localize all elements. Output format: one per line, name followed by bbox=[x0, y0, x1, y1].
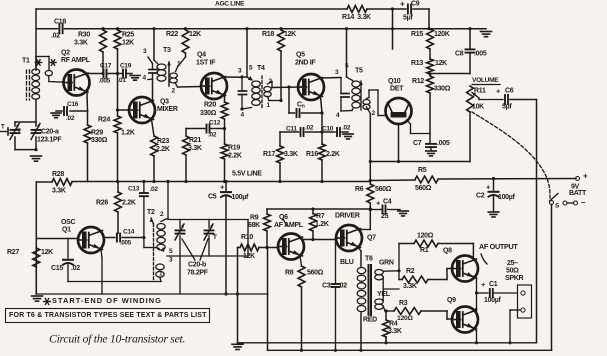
svg-text:BLU: BLU bbox=[340, 259, 354, 266]
svg-text:C18: C18 bbox=[54, 18, 66, 25]
svg-text:5µf: 5µf bbox=[502, 103, 512, 110]
svg-text:100µf: 100µf bbox=[484, 297, 502, 304]
svg-text:2.2K: 2.2K bbox=[122, 199, 136, 206]
svg-text:R8: R8 bbox=[285, 269, 294, 276]
svg-text:T4: T4 bbox=[257, 65, 265, 72]
svg-text:C15: C15 bbox=[51, 265, 63, 272]
svg-text:560Ω: 560Ω bbox=[307, 269, 324, 276]
svg-text:R30: R30 bbox=[78, 31, 90, 38]
svg-text:R22: R22 bbox=[166, 31, 178, 38]
svg-text:T: T bbox=[213, 234, 217, 241]
svg-text:R28: R28 bbox=[52, 171, 64, 178]
svg-text:R5: R5 bbox=[418, 167, 427, 174]
svg-text:3.3K: 3.3K bbox=[188, 145, 202, 152]
svg-text:Cn: Cn bbox=[297, 101, 305, 109]
svg-text:.005: .005 bbox=[474, 50, 487, 57]
svg-text:C2: C2 bbox=[476, 192, 485, 199]
svg-text:.02: .02 bbox=[305, 124, 314, 131]
svg-text:.02: .02 bbox=[150, 186, 159, 193]
svg-text:T3: T3 bbox=[163, 47, 171, 54]
svg-text:3.3K: 3.3K bbox=[52, 187, 66, 194]
svg-text:C12: C12 bbox=[209, 119, 221, 126]
svg-text:R3: R3 bbox=[399, 300, 408, 307]
svg-text:+: + bbox=[583, 172, 588, 181]
svg-text:120Ω: 120Ω bbox=[417, 232, 434, 239]
svg-text:START-END OF WINDING: START-END OF WINDING bbox=[52, 296, 162, 305]
svg-text:AF AMPL: AF AMPL bbox=[274, 222, 304, 229]
svg-text:2.2K: 2.2K bbox=[156, 146, 170, 153]
svg-text:C16: C16 bbox=[67, 101, 79, 108]
svg-text:AF OUTPUT: AF OUTPUT bbox=[479, 242, 518, 251]
svg-text:Circuit of the 10-transistor s: Circuit of the 10-transistor set. bbox=[49, 332, 185, 346]
svg-text:12K: 12K bbox=[41, 249, 53, 256]
svg-text:3.3K: 3.3K bbox=[284, 151, 298, 158]
svg-text:2.2K: 2.2K bbox=[326, 151, 340, 158]
svg-text:Q4: Q4 bbox=[197, 51, 206, 58]
svg-text:1.2K: 1.2K bbox=[121, 129, 135, 136]
svg-text:R29: R29 bbox=[91, 129, 103, 136]
svg-text:R10: R10 bbox=[241, 234, 253, 241]
svg-text:10K: 10K bbox=[472, 103, 484, 110]
svg-text:100µf: 100µf bbox=[498, 194, 516, 201]
svg-text:C4: C4 bbox=[383, 198, 392, 205]
svg-text:68K: 68K bbox=[248, 222, 260, 229]
svg-text:Q7: Q7 bbox=[367, 234, 376, 241]
svg-text:MIXER: MIXER bbox=[157, 106, 178, 113]
svg-text:R27: R27 bbox=[7, 249, 19, 256]
svg-text:2.2K: 2.2K bbox=[228, 152, 242, 159]
svg-text:12K: 12K bbox=[435, 60, 447, 67]
svg-text:5.5V LINE: 5.5V LINE bbox=[232, 170, 262, 177]
svg-text:78.2PF: 78.2PF bbox=[187, 269, 209, 276]
svg-text:12K: 12K bbox=[189, 31, 201, 38]
svg-text:120K: 120K bbox=[434, 31, 450, 38]
svg-text:R1: R1 bbox=[420, 247, 429, 254]
svg-text:+: + bbox=[400, 0, 405, 9]
svg-text:25: 25 bbox=[381, 213, 389, 220]
svg-text:C13: C13 bbox=[128, 185, 140, 192]
svg-text:Q5: Q5 bbox=[296, 51, 305, 58]
svg-text:RED: RED bbox=[363, 316, 377, 323]
svg-text:R19: R19 bbox=[228, 144, 240, 151]
svg-text:R24: R24 bbox=[98, 116, 110, 123]
svg-text:3.3K: 3.3K bbox=[74, 39, 88, 46]
svg-text:VOLUME: VOLUME bbox=[472, 77, 499, 84]
svg-text:.005: .005 bbox=[99, 77, 111, 84]
svg-text:Q10: Q10 bbox=[388, 78, 401, 85]
svg-text:T2: T2 bbox=[147, 209, 155, 216]
svg-text:Q8: Q8 bbox=[443, 247, 452, 254]
svg-text:C19: C19 bbox=[120, 62, 132, 69]
svg-text:3.3K: 3.3K bbox=[388, 328, 402, 335]
svg-text:Q1: Q1 bbox=[62, 226, 71, 233]
svg-text:RF AMPL: RF AMPL bbox=[61, 57, 91, 64]
svg-text:OSC: OSC bbox=[61, 219, 76, 226]
svg-text:50Ω: 50Ω bbox=[506, 267, 519, 274]
svg-text:C5: C5 bbox=[208, 193, 217, 200]
svg-text:123.1PF: 123.1PF bbox=[37, 136, 62, 143]
svg-text:R4: R4 bbox=[389, 320, 398, 327]
svg-text:C11: C11 bbox=[286, 125, 297, 132]
svg-text:R2: R2 bbox=[406, 268, 415, 275]
svg-text:C6: C6 bbox=[505, 87, 514, 94]
svg-text:C20-a: C20-a bbox=[41, 128, 59, 135]
svg-text:T6: T6 bbox=[365, 255, 373, 262]
svg-text:Q2: Q2 bbox=[61, 49, 70, 56]
svg-text:R16: R16 bbox=[306, 151, 318, 158]
svg-text:.02: .02 bbox=[208, 131, 217, 138]
svg-text:12K: 12K bbox=[243, 253, 255, 260]
svg-text:C9: C9 bbox=[411, 0, 420, 7]
svg-text:BATT: BATT bbox=[569, 190, 587, 197]
svg-text:R9: R9 bbox=[250, 214, 259, 221]
svg-text:.005: .005 bbox=[437, 140, 450, 147]
svg-text:R11: R11 bbox=[474, 87, 486, 94]
svg-text:R18: R18 bbox=[262, 31, 274, 38]
svg-text:.02: .02 bbox=[71, 265, 80, 272]
svg-text:.02: .02 bbox=[51, 32, 60, 39]
svg-text:R20: R20 bbox=[204, 101, 216, 108]
svg-text:330Ω: 330Ω bbox=[91, 137, 108, 144]
svg-text:GRN: GRN bbox=[379, 259, 394, 266]
svg-text:C17: C17 bbox=[100, 62, 112, 69]
svg-text:C20-b: C20-b bbox=[188, 261, 206, 268]
svg-text:25–: 25– bbox=[507, 260, 518, 267]
svg-text:R15: R15 bbox=[411, 31, 423, 38]
svg-text:R7: R7 bbox=[316, 213, 325, 220]
svg-text:C10: C10 bbox=[322, 125, 334, 132]
svg-text:C3: C3 bbox=[322, 282, 331, 289]
svg-text:.005: .005 bbox=[120, 240, 132, 247]
svg-text:Q9: Q9 bbox=[447, 297, 456, 304]
svg-text:.02: .02 bbox=[338, 282, 347, 289]
svg-text:.02: .02 bbox=[66, 115, 75, 122]
svg-text:C14: C14 bbox=[123, 228, 135, 235]
svg-text:.02: .02 bbox=[342, 124, 351, 131]
svg-text:R21: R21 bbox=[189, 137, 201, 144]
svg-text:R25: R25 bbox=[122, 31, 134, 38]
svg-text:R26: R26 bbox=[96, 199, 108, 206]
svg-text:SPKR: SPKR bbox=[505, 275, 523, 282]
svg-text:T5: T5 bbox=[355, 67, 363, 74]
svg-text:C1: C1 bbox=[489, 281, 498, 288]
svg-text:R12: R12 bbox=[412, 78, 424, 85]
svg-text:330Ω: 330Ω bbox=[200, 110, 217, 117]
svg-text:R14 3.3K: R14 3.3K bbox=[342, 14, 371, 21]
svg-text:.01: .01 bbox=[118, 77, 127, 84]
svg-text:R23: R23 bbox=[157, 138, 169, 145]
svg-text:T1: T1 bbox=[22, 57, 30, 64]
svg-text:DRIVER: DRIVER bbox=[335, 212, 360, 219]
svg-text:Q3: Q3 bbox=[160, 98, 169, 105]
svg-text:560Ω: 560Ω bbox=[415, 185, 432, 192]
svg-text:1ST IF: 1ST IF bbox=[196, 59, 216, 66]
svg-text:560Ω: 560Ω bbox=[375, 186, 392, 193]
svg-text:3.3K: 3.3K bbox=[403, 283, 417, 290]
svg-text:12K: 12K bbox=[122, 39, 134, 46]
svg-text:C8: C8 bbox=[455, 50, 464, 57]
svg-text:330Ω: 330Ω bbox=[434, 85, 451, 92]
svg-text:R17: R17 bbox=[263, 151, 275, 158]
svg-text:1.2K: 1.2K bbox=[315, 221, 329, 228]
svg-text:FOR T6 & TRANSISTOR TYPES SEE: FOR T6 & TRANSISTOR TYPES SEE TEXT & PAR… bbox=[9, 312, 207, 319]
svg-text:120Ω: 120Ω bbox=[397, 315, 413, 322]
svg-text:AGC LINE: AGC LINE bbox=[215, 1, 245, 8]
svg-text:100µf: 100µf bbox=[232, 194, 250, 201]
svg-text:5µf: 5µf bbox=[403, 14, 413, 21]
svg-text:T: T bbox=[17, 128, 21, 135]
svg-text:C7: C7 bbox=[413, 140, 422, 147]
svg-text:R6: R6 bbox=[355, 186, 364, 193]
svg-text:2ND IF: 2ND IF bbox=[295, 59, 316, 66]
svg-text:R13: R13 bbox=[411, 60, 423, 67]
svg-text:DET: DET bbox=[390, 85, 404, 92]
svg-text:12K: 12K bbox=[284, 31, 296, 38]
